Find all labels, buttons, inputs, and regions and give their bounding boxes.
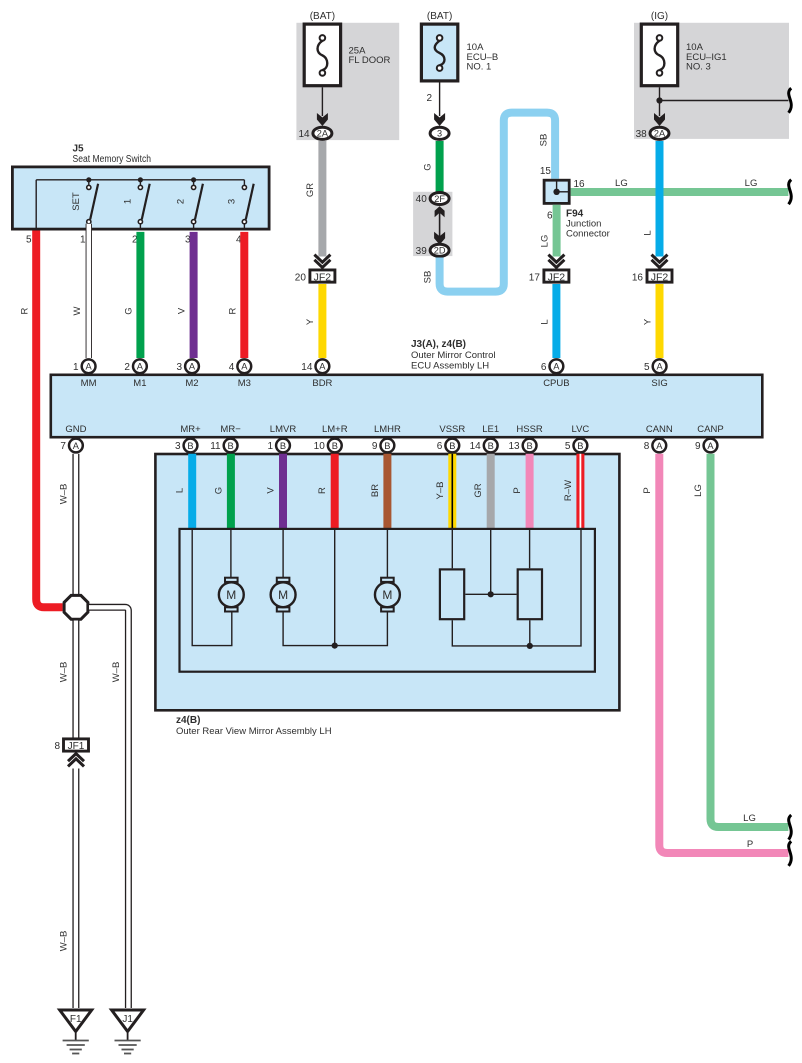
svg-text:MM: MM (81, 378, 97, 389)
svg-text:VSSR: VSSR (439, 424, 465, 435)
svg-text:14: 14 (298, 129, 310, 140)
svg-text:M: M (226, 588, 236, 602)
svg-text:LG: LG (540, 235, 551, 248)
svg-text:5: 5 (644, 362, 650, 373)
svg-text:Outer Rear View Mirror Assembl: Outer Rear View Mirror Assembly LH (176, 726, 332, 737)
svg-text:(BAT): (BAT) (427, 11, 452, 22)
svg-text:F1: F1 (70, 1014, 82, 1025)
svg-text:CANN: CANN (646, 424, 673, 435)
svg-text:16: 16 (574, 179, 586, 190)
svg-text:LMHR: LMHR (374, 424, 401, 435)
svg-text:L: L (643, 230, 654, 235)
svg-text:6: 6 (541, 362, 547, 373)
svg-text:Connector: Connector (566, 228, 610, 239)
svg-text:B: B (280, 441, 286, 451)
svg-text:CPUB: CPUB (543, 378, 569, 389)
svg-text:W–B: W–B (59, 662, 70, 683)
svg-text:G: G (423, 163, 434, 170)
svg-text:MR−: MR− (220, 424, 241, 435)
svg-text:P: P (512, 487, 523, 493)
svg-text:ECU Assembly LH: ECU Assembly LH (411, 361, 489, 372)
svg-text:A: A (553, 362, 560, 372)
svg-text:B: B (187, 441, 193, 451)
svg-text:(IG): (IG) (651, 11, 668, 22)
svg-text:3: 3 (437, 129, 442, 139)
svg-text:3: 3 (175, 441, 181, 452)
svg-text:NO. 1: NO. 1 (467, 62, 492, 73)
svg-text:LE1: LE1 (482, 424, 499, 435)
svg-text:FL DOOR: FL DOOR (349, 55, 391, 66)
svg-text:3: 3 (176, 362, 182, 373)
svg-text:17: 17 (529, 272, 541, 283)
svg-text:A: A (707, 441, 714, 451)
svg-text:LG: LG (693, 484, 704, 497)
svg-text:9: 9 (695, 441, 701, 452)
svg-text:BR: BR (370, 484, 381, 497)
svg-text:BDR: BDR (312, 378, 332, 389)
svg-text:A: A (656, 441, 663, 451)
svg-text:J5: J5 (73, 144, 85, 155)
svg-text:3: 3 (226, 199, 237, 204)
svg-text:8: 8 (644, 441, 650, 452)
svg-text:W: W (72, 306, 83, 315)
svg-text:R–W: R–W (563, 480, 574, 501)
svg-text:V: V (177, 307, 188, 314)
svg-text:P: P (642, 487, 653, 493)
svg-text:15: 15 (540, 166, 552, 177)
svg-text:2A: 2A (317, 129, 329, 139)
svg-text:L: L (175, 488, 186, 493)
svg-text:R: R (228, 307, 239, 314)
svg-text:8: 8 (54, 741, 60, 752)
svg-text:1: 1 (73, 362, 79, 373)
svg-text:B: B (577, 441, 583, 451)
svg-text:W–B: W–B (59, 484, 70, 505)
svg-text:A: A (656, 362, 663, 372)
svg-text:A: A (189, 362, 196, 372)
svg-text:LM+R: LM+R (322, 424, 348, 435)
svg-text:LG: LG (743, 813, 756, 824)
svg-text:4: 4 (229, 362, 235, 373)
svg-text:JF1: JF1 (68, 741, 85, 752)
svg-text:HSSR: HSSR (516, 424, 543, 435)
svg-text:R: R (317, 487, 328, 494)
svg-text:A: A (137, 362, 144, 372)
svg-text:Y–B: Y–B (435, 482, 446, 500)
svg-text:M: M (382, 588, 392, 602)
svg-text:B: B (332, 441, 338, 451)
svg-text:Outer Mirror Control: Outer Mirror Control (411, 350, 495, 361)
svg-text:SB: SB (539, 134, 550, 147)
svg-text:P: P (747, 839, 753, 850)
svg-text:7: 7 (60, 441, 66, 452)
svg-text:2F: 2F (434, 194, 445, 204)
svg-text:J1: J1 (122, 1014, 133, 1025)
svg-text:11: 11 (210, 441, 221, 452)
svg-text:9: 9 (372, 441, 378, 452)
svg-text:2: 2 (124, 362, 130, 373)
svg-text:LVC: LVC (572, 424, 590, 435)
svg-text:SIG: SIG (651, 378, 667, 389)
svg-text:Seat Memory Switch: Seat Memory Switch (73, 154, 152, 165)
svg-text:LG: LG (615, 178, 628, 189)
svg-text:V: V (266, 487, 277, 494)
svg-text:6: 6 (547, 211, 553, 222)
svg-text:CANP: CANP (697, 424, 723, 435)
svg-text:10: 10 (314, 441, 326, 452)
svg-text:20: 20 (295, 272, 307, 283)
svg-text:G: G (213, 487, 224, 494)
svg-text:L: L (540, 319, 551, 324)
svg-text:1: 1 (80, 235, 86, 246)
svg-text:B: B (384, 441, 390, 451)
svg-text:39: 39 (416, 246, 428, 257)
svg-text:GND: GND (65, 424, 86, 435)
svg-text:W–B: W–B (59, 931, 70, 952)
svg-text:M1: M1 (133, 378, 146, 389)
svg-text:2D: 2D (434, 246, 446, 256)
svg-text:M: M (278, 588, 288, 602)
svg-text:B: B (449, 441, 455, 451)
svg-text:2: 2 (176, 199, 187, 204)
svg-text:2: 2 (426, 93, 432, 104)
svg-text:Y: Y (305, 318, 316, 325)
svg-text:14: 14 (470, 441, 482, 452)
svg-text:MR+: MR+ (180, 424, 201, 435)
svg-text:16: 16 (632, 272, 644, 283)
svg-text:2A: 2A (654, 129, 666, 139)
svg-text:J3(A), z4(B): J3(A), z4(B) (411, 339, 466, 350)
svg-text:Y: Y (643, 318, 654, 325)
svg-text:NO. 3: NO. 3 (686, 62, 711, 73)
svg-text:13: 13 (508, 441, 520, 452)
svg-text:B: B (526, 441, 532, 451)
svg-text:14: 14 (301, 362, 313, 373)
svg-text:5: 5 (565, 441, 571, 452)
svg-text:A: A (73, 441, 80, 451)
svg-text:GR: GR (473, 483, 484, 497)
svg-text:6: 6 (437, 441, 443, 452)
svg-text:z4(B): z4(B) (176, 715, 200, 726)
svg-text:1: 1 (267, 441, 273, 452)
svg-text:B: B (227, 441, 233, 451)
svg-text:40: 40 (416, 194, 428, 205)
svg-text:JF2: JF2 (548, 271, 566, 283)
svg-text:JF2: JF2 (314, 271, 332, 283)
svg-text:JF2: JF2 (651, 271, 669, 283)
svg-text:M3: M3 (238, 378, 251, 389)
svg-text:G: G (124, 307, 135, 314)
svg-text:R: R (20, 307, 31, 314)
svg-text:A: A (319, 362, 326, 372)
svg-text:(BAT): (BAT) (310, 11, 335, 22)
svg-text:M2: M2 (185, 378, 198, 389)
svg-text:W–B: W–B (111, 662, 122, 683)
svg-text:SB: SB (423, 271, 434, 284)
svg-text:A: A (241, 362, 248, 372)
svg-text:B: B (488, 441, 494, 451)
svg-text:A: A (85, 362, 92, 372)
svg-text:5: 5 (26, 235, 32, 246)
svg-text:SET: SET (71, 192, 82, 211)
svg-text:LMVR: LMVR (270, 424, 297, 435)
svg-text:GR: GR (305, 183, 316, 197)
svg-text:1: 1 (122, 199, 133, 204)
svg-text:LG: LG (745, 178, 758, 189)
svg-text:38: 38 (636, 129, 648, 140)
